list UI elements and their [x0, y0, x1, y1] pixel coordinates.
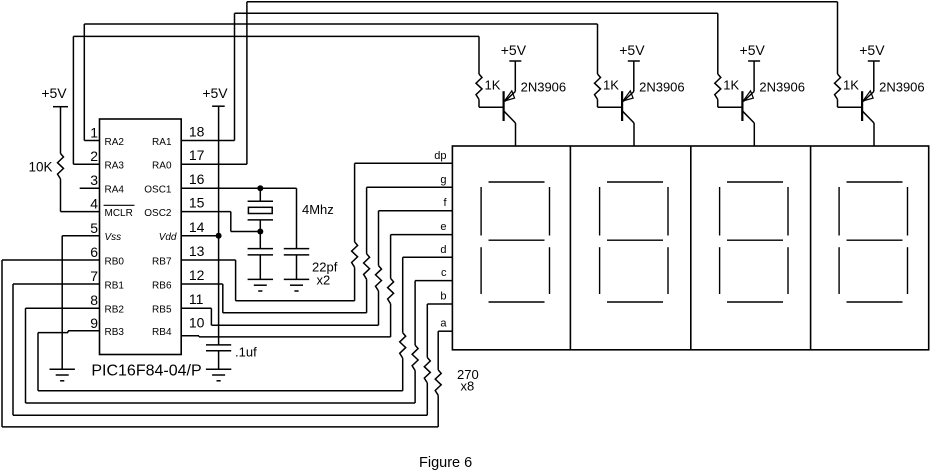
node OSC2 junction [257, 229, 263, 235]
svg-text:x8: x8 [461, 379, 475, 394]
svg-text:17: 17 [189, 147, 205, 163]
node Vdd junction [216, 233, 222, 239]
+5V supply symbol Q2 [619, 42, 645, 92]
7-segment display module outline [452, 146, 928, 350]
U1 pin name RA4 [105, 185, 125, 196]
capacitor C1 22pf [248, 232, 273, 279]
caption Figure 6 [419, 455, 472, 471]
U1 pin number 4 [90, 196, 98, 212]
wire pin10 RB4 to R4 [181, 336, 390, 337]
wire pin16 OSC1 [181, 187, 296, 189]
svg-text:RB3: RB3 [105, 327, 125, 338]
svg-text:1K: 1K [843, 78, 859, 93]
wire segment f to display [379, 210, 453, 212]
resistor R1K2 1K [595, 24, 601, 107]
U1 pin number 6 [90, 244, 98, 260]
transistor Q4 2N3906 [862, 91, 874, 123]
node label segment e [440, 221, 446, 233]
wire collector Q1 to display [515, 123, 517, 146]
svg-text:4: 4 [90, 196, 98, 212]
svg-text:6: 6 [90, 244, 98, 260]
U1 pin number 15 [189, 195, 205, 211]
+5V supply symbol Q1 [501, 42, 527, 92]
svg-text:RB4: RB4 [152, 327, 172, 338]
1K value label Q3 [723, 78, 739, 93]
svg-text:b: b [440, 291, 446, 303]
svg-text:2N3906: 2N3906 [879, 80, 925, 95]
svg-text:e: e [440, 221, 446, 233]
svg-text:MCLR: MCLR [105, 208, 133, 219]
wire collector Q2 to display [633, 123, 635, 146]
U1 pin name OSC2 [144, 208, 172, 219]
svg-text:18: 18 [189, 124, 205, 140]
IC U1 PIC16F84 body [100, 119, 182, 355]
svg-text:RB2: RB2 [105, 305, 125, 316]
10K value label [29, 160, 53, 175]
7-segment digit 4 [839, 182, 907, 302]
svg-text:RB0: RB0 [105, 256, 125, 267]
U1 pin number 16 [189, 171, 205, 187]
svg-text:RB7: RB7 [152, 256, 172, 267]
wire pin9 RB3 to R5 [38, 331, 403, 391]
svg-text:14: 14 [189, 219, 205, 235]
resistor R1K4 1K [835, 2, 841, 107]
ground (C1) [248, 279, 273, 291]
svg-text:dp: dp [434, 150, 446, 162]
node label segment c [441, 267, 447, 279]
bus C RA2 line [84, 23, 597, 25]
U1 pin number 2 [90, 148, 98, 164]
svg-text:OSC1: OSC1 [144, 185, 172, 196]
+5V supply symbol Q4 [859, 42, 885, 92]
svg-text:+5V: +5V [202, 85, 228, 101]
1K value label Q4 [843, 78, 859, 93]
node label segment dp [434, 150, 446, 162]
svg-text:2N3906: 2N3906 [759, 80, 805, 95]
U1 pin name RA2 [105, 137, 125, 148]
wire pin12 RB6 to R2 [181, 284, 366, 313]
svg-text:7: 7 [90, 268, 98, 284]
wire pin18 RA1 to bus B [181, 13, 234, 140]
U1 pin number 17 [189, 147, 205, 163]
svg-text:RB5: RB5 [152, 305, 172, 316]
.1uf value label [235, 345, 257, 360]
U1 pin number 14 [189, 219, 205, 235]
svg-text:OSC2: OSC2 [144, 208, 172, 219]
wire segment e to display [391, 234, 453, 236]
svg-text:PIC16F84-04/P: PIC16F84-04/P [91, 363, 201, 380]
U1 pin number 7 [90, 268, 98, 284]
U1 pin number 8 [90, 292, 98, 308]
wire pin5 Vss to ground [62, 236, 99, 369]
capacitor C2 22pf [284, 188, 309, 279]
svg-text:RB6: RB6 [152, 280, 172, 291]
1K value label Q2 [603, 78, 619, 93]
wire base Q4 [838, 106, 863, 108]
wire segment c to display [415, 280, 452, 282]
resistor R5 270 (segment d) [400, 257, 406, 391]
svg-text:+5V: +5V [41, 85, 67, 101]
2N3906 label Q1 [521, 80, 567, 95]
U1 pin number 11 [189, 291, 204, 307]
wire +5V rail to Vdd and C5 [218, 106, 220, 345]
bus A RA0 line [247, 1, 838, 3]
2N3906 label Q4 [879, 80, 925, 95]
svg-text:10: 10 [189, 315, 205, 331]
U1 pin name RB4 [152, 327, 172, 338]
resistor R8 270 (segment a) [435, 331, 441, 427]
capacitor C5 .1uf [206, 345, 231, 369]
+5V supply symbol (left) [41, 85, 68, 154]
+5V supply symbol (Vdd) [202, 85, 228, 106]
+5V supply symbol Q3 [740, 42, 766, 92]
U1 pin name Vss [105, 232, 122, 243]
svg-text:+5V: +5V [859, 42, 885, 58]
U1 pin name MCLR [105, 208, 133, 219]
node label segment d [440, 244, 446, 256]
wire base Q3 [718, 106, 743, 108]
U1 pin number 10 [189, 315, 205, 331]
transistor Q1 2N3906 [504, 91, 516, 123]
4Mhz value label [302, 202, 334, 217]
wire segment d to display [403, 256, 453, 258]
wire pin8 RB2 to R6 [26, 308, 416, 403]
wire segment b to display [427, 303, 452, 305]
U1 pin name RB2 [105, 305, 125, 316]
U1 pin name RB7 [152, 256, 172, 267]
U1 pin number 18 [189, 124, 205, 140]
resistor R6 270 (segment c) [412, 281, 418, 403]
wire collector Q4 to display [873, 123, 875, 146]
wire pin11 RB5 to R3 [181, 308, 378, 325]
ground (C2) [284, 279, 309, 291]
node label segment a [440, 318, 447, 330]
wire pin1 RA2 to bus C [84, 24, 99, 141]
U1 pin name RA1 [152, 137, 172, 148]
U1 pin number 3 [90, 172, 98, 188]
svg-text:5: 5 [90, 220, 98, 236]
display digit divider 1 [569, 146, 571, 350]
svg-text:1K: 1K [603, 78, 619, 93]
transistor Q3 2N3906 [742, 91, 754, 123]
2N3906 label Q2 [639, 80, 685, 95]
svg-text:8: 8 [90, 292, 98, 308]
crystal X1 4Mhz [248, 188, 273, 231]
svg-text:x2: x2 [317, 273, 331, 288]
resistor R1K1 1K [476, 36, 482, 107]
svg-text:10K: 10K [29, 160, 53, 175]
svg-text:1: 1 [90, 125, 98, 141]
wire pin15 OSC2 [181, 212, 260, 232]
svg-text:4Mhz: 4Mhz [302, 202, 334, 217]
U1 pin name RB1 [105, 280, 125, 291]
svg-text:RA1: RA1 [152, 137, 172, 148]
U1 pin name RB3 [105, 327, 125, 338]
resistor R2 270 (segment g) [364, 187, 370, 312]
ground (Vss) [50, 369, 75, 381]
node label segment b [440, 291, 446, 303]
wire pin14 Vdd [181, 235, 218, 237]
wire base Q1 [479, 106, 504, 108]
bus B RA1 line [235, 12, 718, 14]
wire pin7 RB1 to R7 [13, 284, 427, 415]
svg-text:Vss: Vss [105, 232, 122, 243]
svg-text:d: d [440, 244, 446, 256]
svg-text:2N3906: 2N3906 [639, 80, 685, 95]
U1 pin number 12 [189, 267, 205, 283]
U1 pin name RB5 [152, 305, 172, 316]
wire segment a to display [438, 330, 452, 332]
svg-text:RB1: RB1 [105, 280, 125, 291]
wire segment dp to display [355, 162, 453, 164]
svg-text:RA3: RA3 [105, 161, 125, 172]
U1 pin number 13 [189, 243, 205, 259]
7-segment digit 3 [720, 182, 788, 302]
resistor R4 270 (segment e) [388, 235, 394, 337]
resistor 10K [58, 154, 64, 179]
22pf value label [312, 260, 338, 288]
svg-text:13: 13 [189, 243, 205, 259]
resistor R3 270 (segment f) [376, 211, 382, 326]
2N3906 label Q3 [759, 80, 805, 95]
U1 pin name RB6 [152, 280, 172, 291]
wire pin13 RB7 to R1 [181, 260, 354, 301]
svg-text:Figure 6: Figure 6 [419, 455, 472, 471]
bus D RA3 line [73, 35, 479, 37]
svg-text:1K: 1K [485, 78, 501, 93]
wire base Q2 [598, 106, 623, 108]
svg-text:RA2: RA2 [105, 137, 125, 148]
svg-text:g: g [440, 174, 446, 186]
U1 MCLR overline [104, 204, 135, 206]
svg-text:RA4: RA4 [105, 185, 125, 196]
transistor Q2 2N3906 [622, 91, 634, 123]
svg-text:.1uf: .1uf [235, 345, 257, 360]
wire pin6 RB0 to R8 [2, 260, 438, 427]
wire 10K to MCLR pin 4 [61, 179, 100, 212]
wire segment g to display [367, 186, 453, 188]
svg-text:+5V: +5V [501, 42, 527, 58]
svg-text:1K: 1K [723, 78, 739, 93]
7-segment digit 2 [600, 182, 668, 302]
U1 pin name RA3 [105, 161, 125, 172]
svg-text:11: 11 [189, 291, 204, 307]
U1 pin name RA0 [152, 161, 172, 172]
U1 pin name Vdd [159, 232, 177, 243]
7-segment digit 1 [481, 182, 549, 302]
1K value label Q1 [485, 78, 501, 93]
svg-text:+5V: +5V [619, 42, 645, 58]
display digit divider 3 [810, 146, 812, 350]
U1 pin name OSC1 [144, 185, 172, 196]
resistor R1K3 1K [715, 13, 721, 107]
svg-text:f: f [443, 197, 447, 209]
svg-text:Vdd: Vdd [159, 232, 177, 243]
270 x8 value label [457, 367, 479, 394]
display digit divider 2 [690, 146, 692, 350]
U1 pin number 1 [90, 125, 98, 141]
wire pin17 RA0 to bus A [181, 2, 247, 164]
U1 pin number 9 [90, 315, 98, 331]
resistor R1 270 (segment dp) [352, 163, 358, 300]
wire pin3 RA4 stub [80, 187, 100, 189]
svg-text:RA0: RA0 [152, 161, 172, 172]
node OSC1 junction [257, 185, 263, 191]
svg-text:c: c [441, 267, 447, 279]
U1 pin number 5 [90, 220, 98, 236]
svg-text:9: 9 [90, 315, 98, 331]
wire collector Q3 to display [753, 123, 755, 146]
svg-text:+5V: +5V [740, 42, 766, 58]
U1 part label PIC16F84-04/P [91, 363, 201, 380]
svg-text:2N3906: 2N3906 [521, 80, 567, 95]
svg-text:15: 15 [189, 195, 205, 211]
resistor R7 270 (segment b) [424, 304, 430, 415]
wire pin2 RA3 to bus D [73, 36, 99, 164]
svg-text:3: 3 [90, 172, 98, 188]
node label segment g [440, 174, 446, 186]
svg-text:a: a [440, 318, 447, 330]
svg-text:2: 2 [90, 148, 98, 164]
svg-text:16: 16 [189, 171, 205, 187]
ground (C5) [206, 369, 231, 381]
node label segment f [443, 197, 447, 209]
U1 pin name RB0 [105, 256, 125, 267]
svg-text:12: 12 [189, 267, 205, 283]
